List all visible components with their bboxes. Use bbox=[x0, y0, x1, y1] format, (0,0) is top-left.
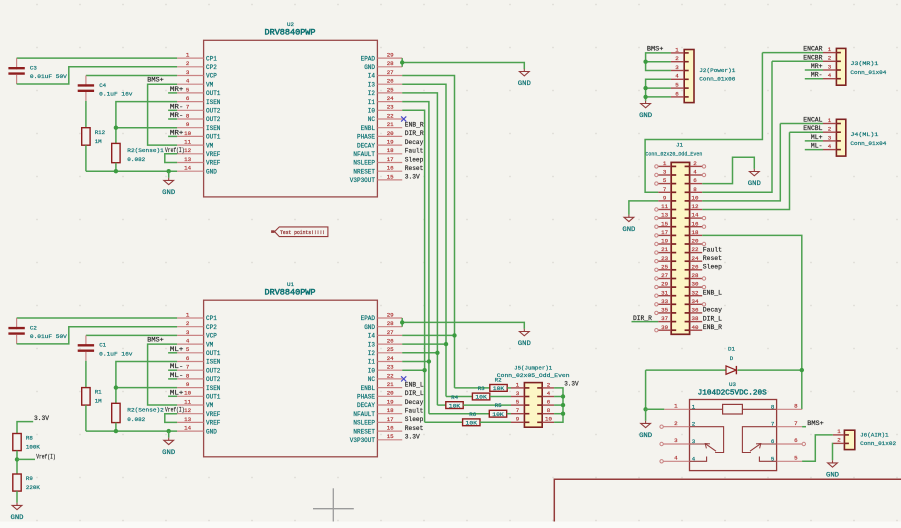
svg-text:R4: R4 bbox=[451, 394, 458, 401]
svg-text:DECAY: DECAY bbox=[357, 142, 375, 149]
svg-text:Fault: Fault bbox=[703, 246, 722, 253]
svg-text:DIR_L: DIR_L bbox=[405, 390, 424, 397]
resistor R3 10K bbox=[472, 393, 489, 401]
svg-text:4: 4 bbox=[828, 72, 832, 79]
svg-text:VM: VM bbox=[206, 81, 214, 88]
svg-text:6: 6 bbox=[186, 355, 190, 362]
junction ISEN bbox=[114, 126, 118, 130]
resistor R9 bbox=[13, 474, 41, 491]
svg-text:Sleep: Sleep bbox=[405, 416, 424, 423]
svg-text:3: 3 bbox=[516, 390, 520, 397]
svg-text:VREF: VREF bbox=[206, 420, 221, 427]
junction ISEN bbox=[114, 385, 118, 389]
svg-text:PHASE: PHASE bbox=[357, 394, 375, 401]
svg-text:GND: GND bbox=[748, 180, 761, 187]
wire R to GND rail bbox=[85, 405, 87, 431]
svg-text:18: 18 bbox=[692, 229, 699, 236]
wire R to J5 pin 3 bbox=[490, 396, 511, 398]
svg-text:Fault: Fault bbox=[405, 148, 424, 155]
svg-text:18: 18 bbox=[387, 407, 394, 414]
wire VREF loop 12-13 bbox=[165, 154, 177, 163]
U3 pin8 stub bbox=[777, 408, 803, 410]
svg-text:4: 4 bbox=[186, 78, 190, 85]
svg-text:23: 23 bbox=[387, 364, 394, 371]
svg-text:14: 14 bbox=[184, 165, 191, 172]
svg-text:MR+: MR+ bbox=[170, 86, 184, 93]
svg-text:20: 20 bbox=[692, 238, 699, 245]
junction I3 U1 tap bbox=[444, 342, 448, 346]
resistor R2(2) bbox=[112, 403, 120, 422]
svg-text:Decay: Decay bbox=[405, 139, 424, 146]
junction J5 pin6 bbox=[561, 403, 565, 407]
wire R9 to gnd bbox=[16, 491, 18, 503]
svg-text:ENCBL: ENCBL bbox=[803, 125, 822, 132]
svg-text:GND: GND bbox=[11, 514, 24, 521]
op-amp U2 DRV8840PWP body bbox=[204, 40, 378, 197]
svg-text:10K: 10K bbox=[449, 402, 461, 409]
svg-text:J5(Jumper)1: J5(Jumper)1 bbox=[514, 365, 553, 372]
wire J2 GND pins 4-6 bbox=[646, 79, 671, 101]
junction R2-GND bbox=[114, 169, 118, 173]
svg-text:1: 1 bbox=[186, 311, 190, 318]
svg-text:0.01uF 50V: 0.01uF 50V bbox=[30, 73, 68, 80]
diode D1 symbol bbox=[726, 366, 736, 374]
svg-text:3.3V: 3.3V bbox=[34, 415, 49, 422]
wire pin2 net bbox=[17, 67, 178, 84]
wire I3 from U2 bbox=[402, 84, 446, 396]
svg-text:R6: R6 bbox=[469, 411, 476, 418]
capacitor C4 bbox=[78, 76, 133, 101]
svg-text:9: 9 bbox=[516, 416, 520, 423]
svg-text:GND: GND bbox=[162, 449, 175, 456]
svg-text:GND: GND bbox=[518, 80, 531, 87]
wire ENCAL bbox=[780, 123, 823, 125]
svg-text:7: 7 bbox=[186, 364, 190, 371]
wire to ground right bbox=[402, 322, 524, 329]
svg-text:Sleep: Sleep bbox=[405, 156, 424, 163]
wire D1 anode down bbox=[645, 370, 647, 409]
wire I1 from U1 bbox=[402, 361, 429, 363]
U3 pin1 stub bbox=[664, 408, 689, 410]
wire J5 pin4 bbox=[554, 396, 563, 398]
wire J2 pin6 bbox=[646, 96, 671, 98]
svg-text:OUT1: OUT1 bbox=[206, 134, 221, 141]
svg-text:15: 15 bbox=[387, 173, 394, 180]
svg-text:OUT1: OUT1 bbox=[206, 350, 221, 357]
svg-text:MR-: MR- bbox=[170, 112, 184, 119]
U3 coil bbox=[723, 404, 743, 414]
svg-text:MR-: MR- bbox=[811, 72, 823, 79]
wire I3 to R bbox=[446, 396, 472, 398]
connector J5(Jumper)1 body bbox=[524, 383, 542, 428]
svg-text:V3P3OUT: V3P3OUT bbox=[350, 437, 376, 444]
junction J5 pin8 bbox=[561, 412, 565, 416]
svg-text:1: 1 bbox=[675, 46, 679, 53]
resistor R8 bbox=[13, 434, 41, 451]
svg-text:2: 2 bbox=[828, 55, 832, 62]
svg-text:VREF: VREF bbox=[206, 160, 221, 167]
wire ENCBL bbox=[702, 132, 789, 209]
svg-text:16: 16 bbox=[692, 220, 699, 227]
svg-text:8: 8 bbox=[186, 372, 190, 379]
svg-text:27: 27 bbox=[387, 329, 394, 336]
svg-text:14: 14 bbox=[692, 212, 699, 219]
junction relay pin1 bbox=[643, 407, 647, 411]
svg-text:24: 24 bbox=[692, 255, 699, 262]
svg-text:ISEN: ISEN bbox=[206, 125, 221, 132]
wire I4 to R bbox=[455, 387, 490, 389]
wire pin8 stub bbox=[168, 378, 177, 380]
wire J6 pin2 gnd bbox=[832, 443, 834, 460]
wire ISEN pins 6-9 bbox=[116, 362, 177, 404]
J6 pin2 stub bbox=[833, 442, 845, 444]
U3 pin1 wire bbox=[646, 408, 665, 410]
svg-text:ENBL: ENBL bbox=[361, 125, 376, 132]
junction J2 pin6 bbox=[643, 95, 647, 99]
svg-text:ML-: ML- bbox=[811, 143, 823, 150]
svg-text:I1: I1 bbox=[368, 99, 376, 106]
svg-text:26: 26 bbox=[692, 263, 699, 270]
svg-text:Fault: Fault bbox=[405, 408, 424, 415]
wire pin10 stub bbox=[168, 395, 177, 397]
wire I2 to R bbox=[437, 404, 445, 406]
wire DIR_R stub bbox=[632, 321, 659, 323]
wire pin9 ISEN bbox=[116, 387, 177, 389]
ground J2 bbox=[639, 101, 652, 119]
svg-text:ENB_L: ENB_L bbox=[703, 290, 722, 297]
svg-text:0.1uF 16v: 0.1uF 16v bbox=[99, 90, 133, 97]
svg-text:R2(Sense)2: R2(Sense)2 bbox=[127, 407, 164, 414]
svg-text:CP1: CP1 bbox=[206, 315, 217, 322]
svg-text:29: 29 bbox=[387, 311, 394, 318]
wire MR+ bbox=[805, 69, 823, 71]
U3 pin6 stub bbox=[777, 443, 803, 445]
svg-text:ML-: ML- bbox=[170, 372, 184, 379]
svg-text:DIR_R: DIR_R bbox=[633, 315, 652, 322]
svg-text:C1: C1 bbox=[99, 342, 106, 349]
relay U3 body bbox=[690, 400, 777, 471]
svg-text:I3: I3 bbox=[368, 81, 376, 88]
J1 pins 1-40 bbox=[655, 160, 706, 332]
svg-text:ML+: ML+ bbox=[170, 389, 184, 396]
svg-text:I0: I0 bbox=[368, 367, 376, 374]
J2 pins 1-6 bbox=[671, 46, 689, 97]
svg-text:OUT2: OUT2 bbox=[206, 116, 221, 123]
svg-text:ML+: ML+ bbox=[811, 134, 823, 141]
svg-text:Vref(I): Vref(I) bbox=[165, 407, 185, 414]
resistor R4 10K bbox=[446, 402, 463, 410]
svg-text:ENBL: ENBL bbox=[361, 385, 376, 392]
svg-text:9: 9 bbox=[663, 195, 667, 202]
svg-text:10K: 10K bbox=[475, 394, 487, 401]
svg-text:GND: GND bbox=[826, 472, 839, 479]
svg-text:VCP: VCP bbox=[206, 333, 217, 340]
svg-text:Reset: Reset bbox=[405, 165, 424, 172]
svg-text:BMS+: BMS+ bbox=[807, 420, 824, 427]
svg-text:6: 6 bbox=[186, 95, 190, 102]
svg-text:EPAD: EPAD bbox=[361, 55, 376, 62]
svg-text:15: 15 bbox=[387, 433, 394, 440]
junction J2 pin5 bbox=[643, 86, 647, 90]
svg-text:GND: GND bbox=[206, 428, 217, 435]
svg-text:22: 22 bbox=[387, 372, 394, 379]
connector J3(MR)1 body bbox=[836, 48, 845, 85]
svg-text:22: 22 bbox=[387, 112, 394, 119]
svg-text:0.082: 0.082 bbox=[127, 416, 146, 423]
svg-text:5: 5 bbox=[663, 177, 667, 184]
wire pin7 stub bbox=[168, 109, 177, 111]
svg-text:NSLEEP: NSLEEP bbox=[353, 160, 375, 167]
wire J2 pin5 bbox=[646, 87, 671, 89]
svg-text:NC: NC bbox=[368, 116, 376, 123]
svg-text:R9: R9 bbox=[26, 475, 33, 482]
svg-text:40: 40 bbox=[692, 324, 699, 331]
no-connect pin22 bbox=[401, 116, 406, 121]
svg-text:D: D bbox=[730, 355, 734, 362]
U3 pin5 stub bbox=[777, 460, 803, 462]
svg-text:J3(MR)1: J3(MR)1 bbox=[850, 60, 879, 67]
wire R to J5 pin 7 bbox=[507, 413, 511, 415]
svg-text:R2(Sense)1: R2(Sense)1 bbox=[127, 147, 164, 154]
junction I0 U1 tap bbox=[422, 368, 426, 372]
svg-text:C2: C2 bbox=[30, 325, 37, 332]
svg-text:BMS+: BMS+ bbox=[147, 337, 164, 344]
svg-text:0.082: 0.082 bbox=[127, 156, 146, 163]
svg-text:1: 1 bbox=[692, 403, 696, 410]
svg-text:37: 37 bbox=[661, 315, 668, 322]
svg-text:ENB_R: ENB_R bbox=[703, 324, 722, 331]
wire ENCBL bbox=[790, 131, 824, 133]
J6 pin1 stub bbox=[833, 434, 845, 436]
cursor crosshair bbox=[313, 508, 354, 510]
wire I2 from U1 bbox=[402, 352, 437, 354]
wire pin7 stub bbox=[168, 369, 177, 371]
svg-text:CP2: CP2 bbox=[206, 64, 217, 71]
svg-text:1: 1 bbox=[837, 428, 841, 435]
svg-text:ENB_R: ENB_R bbox=[405, 122, 424, 129]
svg-text:12: 12 bbox=[184, 147, 191, 154]
svg-text:R5: R5 bbox=[495, 402, 502, 409]
svg-text:VREF: VREF bbox=[206, 411, 221, 418]
svg-text:2: 2 bbox=[837, 437, 841, 444]
svg-text:21: 21 bbox=[387, 121, 394, 128]
svg-text:3: 3 bbox=[186, 329, 190, 336]
svg-text:23: 23 bbox=[387, 104, 394, 111]
svg-text:BMS+: BMS+ bbox=[647, 46, 664, 53]
svg-text:R2: R2 bbox=[495, 376, 502, 383]
svg-text:4: 4 bbox=[674, 455, 678, 462]
svg-text:100K: 100K bbox=[26, 443, 40, 450]
svg-text:DRV8840PWP: DRV8840PWP bbox=[265, 288, 316, 298]
svg-text:3: 3 bbox=[663, 169, 667, 176]
svg-text:8: 8 bbox=[693, 186, 697, 193]
svg-text:8: 8 bbox=[771, 403, 775, 410]
svg-text:1M: 1M bbox=[95, 138, 102, 145]
wire BMS+ pins 1-3 bbox=[646, 53, 671, 71]
svg-text:29: 29 bbox=[661, 281, 668, 288]
wire J1 pin6 gnd bbox=[702, 157, 754, 183]
svg-text:6: 6 bbox=[547, 399, 551, 406]
wire R to J5 pin 9 bbox=[480, 421, 511, 423]
svg-text:OUT2: OUT2 bbox=[206, 376, 221, 383]
wire pin8 stub bbox=[168, 118, 177, 120]
svg-text:16: 16 bbox=[387, 425, 394, 432]
svg-text:DIR_R: DIR_R bbox=[405, 130, 424, 137]
J5 pin 3 stub bbox=[511, 396, 524, 398]
wire VREF loop 12-13 bbox=[165, 414, 177, 423]
U3 pin2 stub bbox=[663, 426, 689, 428]
svg-text:ENB_L: ENB_L bbox=[405, 381, 424, 388]
svg-text:BMS+: BMS+ bbox=[147, 77, 164, 84]
wire J5 pin6 bbox=[554, 404, 563, 406]
svg-text:32: 32 bbox=[692, 289, 699, 296]
svg-text:26: 26 bbox=[387, 338, 394, 345]
svg-text:Conn_01x04: Conn_01x04 bbox=[850, 140, 887, 147]
svg-text:11: 11 bbox=[184, 139, 191, 146]
junction I2 U1 tap bbox=[435, 351, 439, 355]
svg-text:10: 10 bbox=[184, 390, 191, 397]
wire I4 from U1 bbox=[402, 334, 454, 336]
svg-text:3.3V: 3.3V bbox=[564, 380, 579, 387]
svg-text:Conn_02x20_Odd_Even: Conn_02x20_Odd_Even bbox=[645, 151, 702, 158]
svg-text:R1: R1 bbox=[95, 389, 102, 396]
svg-text:17: 17 bbox=[661, 229, 668, 236]
wire EPAD-GND tie bbox=[401, 58, 403, 67]
U3 pin7 stub bbox=[777, 426, 803, 428]
svg-text:6: 6 bbox=[794, 437, 798, 444]
svg-text:4: 4 bbox=[675, 73, 679, 80]
junction D1 cathode bbox=[800, 368, 804, 372]
svg-text:19: 19 bbox=[387, 139, 394, 146]
wire 3.3V bus J5 bbox=[554, 388, 563, 422]
wire C to R bbox=[85, 361, 87, 388]
svg-text:15: 15 bbox=[661, 220, 668, 227]
svg-text:19: 19 bbox=[387, 398, 394, 405]
wire R to GND rail bbox=[85, 145, 87, 171]
wire I4 from U2 bbox=[402, 76, 454, 388]
svg-text:26: 26 bbox=[387, 78, 394, 85]
svg-text:OUT2: OUT2 bbox=[206, 367, 221, 374]
svg-text:3: 3 bbox=[186, 69, 190, 76]
svg-text:7: 7 bbox=[794, 420, 798, 427]
diode D1 wires bbox=[646, 369, 726, 371]
svg-text:5: 5 bbox=[675, 82, 679, 89]
svg-text:I1: I1 bbox=[368, 359, 376, 366]
svg-text:35: 35 bbox=[661, 307, 668, 314]
svg-text:MR+: MR+ bbox=[811, 63, 823, 70]
svg-text:ISEN: ISEN bbox=[206, 385, 221, 392]
wire Vref tap bbox=[17, 458, 35, 460]
svg-text:C3: C3 bbox=[30, 65, 37, 72]
wire 3.3V to R8 bbox=[17, 422, 33, 434]
J5 pin 5 stub bbox=[511, 404, 524, 406]
wire BMS+ VM pins 4-11 bbox=[148, 344, 178, 405]
connector J2(Power)1 body bbox=[684, 50, 694, 103]
capacitor C1 bbox=[78, 335, 133, 360]
resistor R12 bbox=[82, 128, 106, 146]
svg-text:DRV8840PWP: DRV8840PWP bbox=[265, 28, 316, 38]
svg-text:25: 25 bbox=[387, 86, 394, 93]
svg-text:GND: GND bbox=[364, 324, 375, 331]
ground U3 pin1 bbox=[639, 421, 652, 439]
svg-text:GND: GND bbox=[162, 189, 175, 196]
svg-text:11: 11 bbox=[661, 203, 668, 210]
svg-text:5: 5 bbox=[186, 346, 190, 353]
no-connect pin22 bbox=[401, 376, 406, 381]
wire GND drop bbox=[168, 171, 170, 178]
svg-text:19: 19 bbox=[661, 238, 668, 245]
svg-text:10: 10 bbox=[692, 195, 699, 202]
svg-text:16: 16 bbox=[387, 165, 394, 172]
resistor R5 10K bbox=[489, 410, 506, 418]
svg-text:2: 2 bbox=[186, 320, 190, 327]
wire relay gnd drop bbox=[645, 409, 647, 421]
wire ENCAR bbox=[645, 53, 762, 193]
svg-text:DIR_L: DIR_L bbox=[703, 315, 722, 322]
junction EPAD-GND bbox=[400, 60, 404, 64]
svg-text:1: 1 bbox=[663, 160, 667, 167]
svg-text:I0: I0 bbox=[368, 108, 376, 115]
svg-text:2: 2 bbox=[547, 381, 551, 388]
wire I0 from U1 bbox=[402, 369, 424, 371]
svg-text:38: 38 bbox=[692, 315, 699, 322]
wire pin1 net bbox=[17, 317, 178, 319]
svg-text:EPAD: EPAD bbox=[361, 315, 376, 322]
wire pin5 stub bbox=[168, 352, 177, 354]
wire pin5 stub bbox=[168, 92, 177, 94]
wire ENCAL bbox=[702, 124, 780, 201]
wire pin3 net bbox=[86, 334, 177, 336]
svg-text:12: 12 bbox=[184, 407, 191, 414]
svg-text:24: 24 bbox=[387, 95, 394, 102]
U3 left contact bbox=[690, 427, 724, 453]
svg-text:1: 1 bbox=[674, 403, 678, 410]
wire I3 from U1 bbox=[402, 343, 446, 345]
svg-text:13: 13 bbox=[661, 212, 668, 219]
J5 pin 2 stub bbox=[542, 387, 554, 389]
svg-text:4: 4 bbox=[186, 338, 190, 345]
svg-text:17: 17 bbox=[387, 156, 394, 163]
svg-text:VREF: VREF bbox=[206, 151, 221, 158]
junction GND-drop bbox=[167, 169, 171, 173]
wire EPAD-GND tie bbox=[401, 318, 403, 327]
junction R2-GND bbox=[114, 429, 118, 433]
svg-text:I4: I4 bbox=[368, 73, 376, 80]
svg-text:39: 39 bbox=[661, 324, 668, 331]
wire I2 from U2 bbox=[402, 93, 437, 405]
wire pin9 ISEN bbox=[116, 127, 177, 129]
svg-text:Decay: Decay bbox=[703, 307, 722, 314]
svg-text:ML+: ML+ bbox=[170, 346, 184, 353]
U1 right pins 15-29 bbox=[350, 311, 402, 444]
wire BMS+ VM pins 4-11 bbox=[148, 84, 178, 145]
J5 pin 4 stub bbox=[542, 396, 554, 398]
svg-text:4: 4 bbox=[547, 390, 551, 397]
svg-text:ENCBR: ENCBR bbox=[803, 54, 822, 61]
svg-text:20: 20 bbox=[387, 390, 394, 397]
svg-text:U3: U3 bbox=[729, 381, 736, 388]
wire R to J5 pin 1 bbox=[507, 387, 511, 389]
svg-text:27: 27 bbox=[661, 272, 668, 279]
U2 left pins 1-14 bbox=[177, 52, 221, 176]
wire I0 from U2 bbox=[402, 110, 424, 422]
svg-text:10K: 10K bbox=[492, 411, 504, 418]
svg-text:ENCAR: ENCAR bbox=[803, 46, 822, 53]
svg-text:MR-: MR- bbox=[170, 103, 184, 110]
wire I1 from U2 bbox=[402, 102, 429, 414]
global label Test points!!!!! bbox=[271, 230, 274, 233]
wire J2 pin2 bbox=[646, 61, 671, 63]
